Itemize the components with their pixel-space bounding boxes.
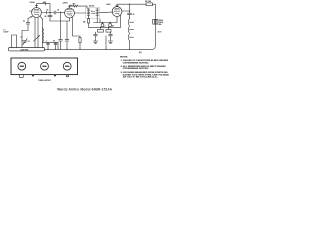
resistor R2 — [73, 18, 82, 50]
junction dots on bus — [47, 49, 130, 50]
svg-text:.0001: .0001 — [43, 2, 47, 4]
svg-text:C2: C2 — [28, 41, 30, 43]
svg-text:12SA7: 12SA7 — [30, 1, 35, 4]
wire V3 cathode — [120, 15, 122, 27]
wire V3 plate to vertical — [122, 10, 130, 11]
V2 cathode capacitor C8 — [65, 21, 69, 49]
mount triangle right — [54, 75, 57, 77]
trimmer capacitor C2 across loop — [21, 37, 30, 45]
wire loop terminals — [12, 31, 23, 48]
svg-text:AT 117 V. 60 CYCLES A.C.: AT 117 V. 60 CYCLES A.C. — [123, 76, 159, 79]
knob tuning — [41, 62, 49, 70]
speaker / output transformer — [153, 19, 164, 26]
IF transformer T1 — [74, 6, 113, 23]
resistor R5 — [106, 27, 111, 32]
label 50L6 — [107, 4, 111, 6]
label B- — [139, 52, 142, 54]
label 12SK7 — [63, 2, 68, 4]
label L1 LOOP — [4, 29, 10, 33]
wire V1 plate to V2 grid with series capacitor C4 — [42, 9, 65, 14]
padder capacitors C5 C6 — [43, 40, 59, 49]
svg-text:OTHERWISE NOTED.: OTHERWISE NOTED. — [123, 62, 150, 64]
right B+ vertical wire — [152, 4, 155, 49]
loop antenna L1 flat box — [9, 48, 45, 52]
IF amplifier tube V2 12SK7 — [65, 6, 75, 18]
svg-text:LOOP ANT.: LOOP ANT. — [20, 48, 29, 51]
capacitor C3 with ground — [44, 12, 69, 21]
svg-text:LOOP: LOOP — [4, 32, 10, 34]
output transformer primary / filter choke on vertical — [127, 3, 134, 49]
svg-text:R3 1200: R3 1200 — [145, 1, 151, 3]
svg-text:450: 450 — [159, 24, 162, 26]
mount triangle left — [32, 75, 35, 77]
svg-text:.1: .1 — [46, 40, 47, 42]
svg-text:.05: .05 — [53, 40, 55, 42]
output tube V3 50L6 — [112, 4, 122, 16]
svg-text:20: 20 — [133, 14, 135, 16]
svg-text:.05: .05 — [46, 9, 48, 11]
foot cup — [19, 75, 24, 78]
panel label — [38, 79, 52, 82]
knob volume — [18, 62, 26, 70]
svg-text:NOTES:: NOTES: — [120, 57, 128, 59]
svg-text:OTHERWISE NOTED.: OTHERWISE NOTED. — [123, 68, 150, 70]
svg-text:Wards Airline Model 64BR-1514A: Wards Airline Model 64BR-1514A — [57, 88, 113, 92]
svg-text:TUBE LAYOUT: TUBE LAYOUT — [38, 79, 52, 82]
screen dropper with capacitor C7 — [59, 12, 63, 50]
resistor R6 below IFT — [83, 16, 90, 27]
resistor R3 on top bus — [145, 1, 153, 6]
svg-text:117V.: 117V. — [158, 32, 163, 34]
wire V1 cathode to bus — [35, 18, 38, 48]
wire volume control to bus — [105, 36, 107, 50]
wire V1 grid cap to oscillator node — [37, 2, 51, 16]
capacitor C12 with ground — [108, 32, 113, 44]
svg-text:C2: C2 — [21, 37, 23, 39]
label 12SA7 — [30, 1, 35, 4]
label 117V — [158, 32, 163, 34]
capacitor C11 with ground — [93, 32, 98, 44]
svg-text:C1: C1 — [23, 21, 25, 23]
chassis front panel box — [11, 58, 78, 75]
svg-text:12SK7: 12SK7 — [63, 2, 68, 4]
AVC line — [89, 27, 121, 28]
svg-text:.05: .05 — [44, 16, 46, 18]
notes heading — [120, 57, 169, 79]
knob tone — [63, 62, 71, 70]
wire V2 grid cap to IF transformer — [70, 3, 88, 8]
svg-text:.01: .01 — [57, 9, 59, 11]
resistor R4 — [98, 27, 104, 32]
detector line — [94, 16, 118, 22]
capacitor box C9 — [101, 23, 105, 28]
svg-text:456 KC: 456 KC — [89, 6, 95, 8]
converter tube V1 12SA7 — [30, 5, 42, 17]
caption — [57, 88, 113, 92]
top B+ bus — [117, 3, 146, 5]
capacitor box C10 — [109, 23, 114, 28]
svg-text:(B-): (B-) — [139, 52, 142, 54]
wire loop to V1 grid with capacitor C1 — [22, 16, 32, 30]
grommet — [66, 75, 69, 77]
oscillator coil L2 — [34, 17, 44, 48]
junction dots detector line — [102, 22, 111, 23]
bottom B- bus — [45, 48, 153, 50]
svg-text:50L6: 50L6 — [107, 4, 111, 6]
